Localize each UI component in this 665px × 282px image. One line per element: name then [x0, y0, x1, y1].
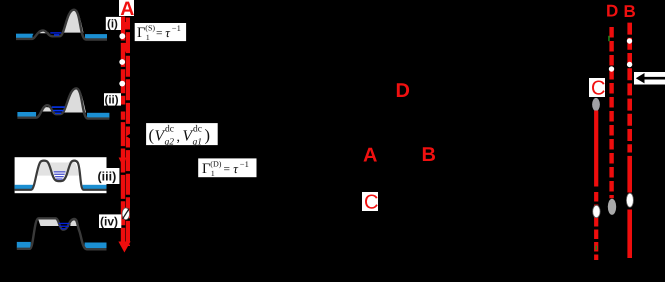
svg-text:=: = [224, 164, 231, 176]
svg-text:): ) [205, 126, 211, 145]
svg-text:C: C [591, 78, 605, 100]
svg-text:=: = [156, 28, 163, 40]
svg-text:g2: g2 [165, 138, 175, 148]
svg-text:g1: g1 [193, 138, 203, 148]
svg-text:D: D [396, 80, 410, 102]
svg-text:(ii): (ii) [105, 94, 119, 106]
svg-text:Γ: Γ [137, 25, 145, 41]
svg-text:B: B [624, 2, 636, 21]
svg-text:D: D [606, 2, 618, 21]
svg-text:−1: −1 [172, 23, 181, 33]
svg-text:1: 1 [211, 169, 215, 178]
svg-text:,: , [177, 130, 181, 145]
svg-text:1: 1 [146, 33, 150, 42]
svg-text:(iv): (iv) [100, 214, 118, 228]
svg-text:A: A [363, 144, 377, 166]
svg-text:−1: −1 [240, 159, 249, 169]
svg-text:C: C [364, 192, 378, 214]
svg-text:dc: dc [193, 125, 202, 135]
svg-text:(iii): (iii) [98, 170, 117, 184]
svg-text:B: B [422, 144, 436, 166]
svg-text:(: ( [149, 126, 155, 145]
svg-text:Γ: Γ [202, 161, 210, 177]
svg-text:(i): (i) [107, 18, 118, 30]
svg-text:dc: dc [165, 125, 174, 135]
svg-text:(D): (D) [210, 160, 221, 169]
svg-text:(S): (S) [145, 24, 155, 33]
